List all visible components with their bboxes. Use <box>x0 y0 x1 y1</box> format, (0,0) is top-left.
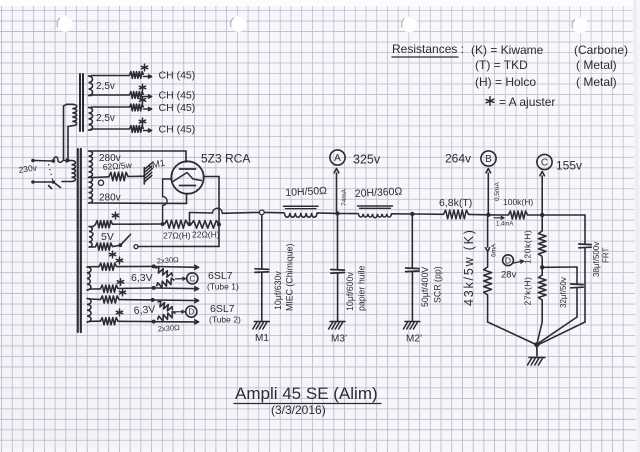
wire heater lead row 2 <box>92 94 130 96</box>
label 100k(H) <box>503 197 533 207</box>
asterisk t2 bottom <box>116 309 122 316</box>
svg-text:32μf/50v: 32μf/50v <box>559 277 568 308</box>
wire to test A <box>336 173 338 212</box>
choke L2 20H/360ohm <box>358 206 393 218</box>
arrow into primary <box>63 159 70 163</box>
wire 32uF bottom <box>576 288 578 317</box>
resistor 43k/5W (K) <box>484 267 492 295</box>
resistor 62ohm 5W <box>109 172 128 180</box>
label 22ohm(H) <box>192 230 220 240</box>
arrow test C <box>540 172 545 177</box>
junction node D <box>540 265 544 269</box>
label 2,5v #2 <box>96 113 115 124</box>
wire gnd stub <box>536 345 538 356</box>
arrow test A <box>334 169 339 174</box>
winding 6.3V #1 <box>87 267 91 290</box>
svg-text:100k(H): 100k(H) <box>503 197 533 207</box>
wire M3 cap bottom <box>337 273 339 321</box>
wire M3 cap top <box>337 216 339 269</box>
svg-text:C: C <box>541 158 548 169</box>
svg-text:120k(H): 120k(H) <box>523 230 533 264</box>
resistor 2x30 t2b <box>158 311 176 321</box>
svg-text:M1: M1 <box>255 333 269 344</box>
wire 6.3V t1 top <box>91 265 153 267</box>
wire 43k branch top <box>487 217 489 247</box>
core T1 <box>78 149 81 332</box>
label 32uf/50v <box>559 277 568 308</box>
label 10H/50ohm <box>285 185 327 199</box>
svg-text:155v: 155v <box>556 159 582 173</box>
ground M2' <box>403 322 420 330</box>
junction t1 bottom node <box>152 286 156 290</box>
resistor 2x30 t2a <box>158 301 173 311</box>
arrow heater t2 top <box>155 298 199 303</box>
svg-text:6,3V: 6,3V <box>131 272 153 284</box>
wire B+ takeoff <box>190 208 260 224</box>
node C heater circle <box>187 273 198 284</box>
arrow heater t1 bottom <box>156 286 199 291</box>
capacitor C4 32uF/50v <box>571 284 583 288</box>
label M1 top <box>150 158 167 171</box>
arrow CH row 1 <box>144 75 152 79</box>
svg-text:43k/5w (K): 43k/5w (K) <box>462 228 476 306</box>
svg-text:( Metal): ( Metal) <box>576 58 617 72</box>
svg-text:5Z3 RCA: 5Z3 RCA <box>201 152 250 166</box>
svg-text:0,5mA: 0,5mA <box>494 182 501 201</box>
terminal mains top <box>31 159 52 163</box>
wire 280v bottom to plate <box>92 194 187 204</box>
svg-text:(T) = TKD: (T) = TKD <box>475 58 528 72</box>
svg-text:B: B <box>485 154 492 165</box>
svg-text:280v: 280v <box>99 193 121 204</box>
label 120k(H) <box>523 230 533 264</box>
resistor CH adjust R1 <box>130 72 144 79</box>
svg-text:CH (45): CH (45) <box>159 90 196 102</box>
label 1,4mA <box>496 222 513 228</box>
arrow CH row 3 <box>144 107 152 111</box>
resistor 27ohm(H) <box>165 220 189 228</box>
label CH (45) row 4 <box>159 124 196 136</box>
wire rail seg3 <box>339 213 358 215</box>
svg-text:papier huile: papier huile <box>357 265 367 311</box>
ground M3' <box>329 322 346 330</box>
junction t2 top node <box>151 298 155 302</box>
svg-text:= A ajuster: = A ajuster <box>499 95 555 109</box>
svg-text:6,8k(T): 6,8k(T) <box>439 197 472 209</box>
asterisk R3 <box>139 97 145 104</box>
label 2,5v #1 <box>96 81 115 92</box>
svg-text:62Ω/5w: 62Ω/5w <box>102 160 133 172</box>
label CH (45) row 2 <box>159 90 196 102</box>
switch SW1 <box>49 180 61 188</box>
wire rail seg7 <box>490 214 509 216</box>
svg-text:2x30Ω: 2x30Ω <box>157 255 180 266</box>
svg-text:10μf/600v: 10μf/600v <box>345 272 355 311</box>
label 6SL7 tube1 <box>207 270 239 292</box>
terminal open circle CT <box>98 180 103 185</box>
label 6,3V #2 <box>133 304 155 317</box>
resistor 120k(H) <box>538 231 546 257</box>
junction node M1 cap <box>259 210 264 215</box>
svg-text:6mA: 6mA <box>491 243 498 257</box>
winding T2 secondary 2.5V #2 <box>89 108 93 131</box>
asterisk 5V top <box>112 212 118 219</box>
label 230v <box>18 162 38 175</box>
asterisk 5V bottom <box>109 251 115 258</box>
arrow heater t2 bottom <box>156 320 199 325</box>
wire 43k mid <box>487 252 489 268</box>
label 264v <box>445 152 471 166</box>
svg-text:(H) = Holco: (H) = Holco <box>475 75 536 89</box>
svg-text:CH (45): CH (45) <box>159 102 196 114</box>
wire 6.3V t2 top <box>91 298 152 301</box>
wire 27k to gnd <box>537 322 542 345</box>
asterisk R2 <box>139 84 145 91</box>
label 20H/360ohm <box>355 186 403 200</box>
wire 120k branch top <box>541 217 543 231</box>
capacitor C1 10uF/630v <box>255 269 269 273</box>
winding 6.3V #2 <box>87 299 91 323</box>
wire M2 cap top <box>411 216 413 267</box>
label 6,8k(T) <box>439 197 472 209</box>
wire 6.3V t1 bottom <box>91 288 153 289</box>
label 62ohm/5W <box>102 160 133 172</box>
svg-text:28v: 28v <box>501 270 517 281</box>
winding T1 primary <box>62 161 76 182</box>
svg-text:FRT: FRT <box>602 247 611 263</box>
legend asterisk <box>486 95 555 109</box>
junction node M2 <box>410 212 414 216</box>
asterisk t1 top <box>116 257 122 264</box>
node B circle <box>481 151 496 166</box>
legend T <box>475 58 617 72</box>
wire 32uF top <box>544 267 577 284</box>
terminal open switch <box>134 245 138 249</box>
svg-text:2,5v: 2,5v <box>96 81 115 92</box>
svg-text:C: C <box>189 274 195 283</box>
arrow test B <box>486 169 491 174</box>
svg-text:27Ω(H): 27Ω(H) <box>163 231 191 241</box>
wire switch to filament right <box>138 225 219 247</box>
asterisk t1 bottom <box>117 279 123 286</box>
label 27ohm(H) <box>163 231 191 241</box>
tube 5Z3 bottom bar <box>180 185 196 187</box>
wire M1 cap top <box>261 215 263 269</box>
svg-text:74mA: 74mA <box>341 188 348 206</box>
winding T2 secondary 2.5V #1 <box>89 76 93 96</box>
arrow CH row 4 <box>144 129 152 133</box>
wire 38uF top <box>584 215 586 244</box>
svg-text:2,5v: 2,5v <box>96 113 115 124</box>
resistor CH adjust R4 <box>130 126 144 133</box>
svg-text:CH (45): CH (45) <box>159 70 196 82</box>
arrow to D <box>174 310 185 313</box>
svg-text:27k(H): 27k(H) <box>523 276 533 305</box>
capacitor C5 38uF/500v <box>579 244 591 248</box>
junction mains top <box>52 159 56 163</box>
arrow heater t1 top <box>156 265 199 270</box>
label M3' <box>331 334 347 345</box>
tube 5Z3 plate bar <box>180 168 196 170</box>
svg-text:6SL7: 6SL7 <box>210 303 235 315</box>
junction mid node <box>188 222 192 226</box>
svg-text:M3’: M3’ <box>331 334 347 345</box>
node A circle <box>330 150 345 165</box>
wire heater lead row 4 <box>92 128 130 130</box>
switch linkage dashed <box>49 164 53 180</box>
legend H <box>475 75 617 89</box>
label 50uf/400V <box>420 267 430 307</box>
resistor CH adjust R2 <box>130 92 144 99</box>
wire to test B <box>487 173 489 213</box>
svg-text:6SL7: 6SL7 <box>208 270 233 282</box>
resistor 100k(H) <box>509 211 528 219</box>
svg-text:CH (45): CH (45) <box>159 124 196 136</box>
capacitor C3 50uF/400V <box>406 268 420 272</box>
svg-text:(Tube 1): (Tube 1) <box>207 282 239 292</box>
label papier huile <box>357 265 367 311</box>
label 155v <box>556 159 582 173</box>
svg-text:M1: M1 <box>151 158 166 171</box>
tube 5Z3 envelope <box>171 161 203 193</box>
label 325v <box>353 153 381 167</box>
arrow D to node <box>514 260 524 264</box>
resistor 22ohm(H) <box>191 221 219 229</box>
winding T1 secondary 280-0-280 <box>89 151 93 203</box>
label SCR (pp) <box>433 266 443 303</box>
junction ground node <box>534 342 539 347</box>
wire 6.3V t2 bottom <box>91 320 153 322</box>
ground main <box>528 358 546 366</box>
svg-text:325v: 325v <box>353 153 381 167</box>
asterisk t2 top <box>119 289 125 296</box>
label 2x30ohm t1 <box>157 255 180 266</box>
node C circle <box>537 154 552 169</box>
junction node B <box>486 213 490 217</box>
svg-text:10μf/630v: 10μf/630v <box>273 271 283 310</box>
svg-text:(Tube 2): (Tube 2) <box>209 315 241 325</box>
wire 38uF to gnd <box>538 322 585 345</box>
wire 38uF bottom <box>584 248 586 322</box>
svg-text:20H/360Ω: 20H/360Ω <box>355 186 403 200</box>
wire rail seg6 <box>469 213 488 215</box>
node D circle <box>503 255 514 266</box>
wire filament right <box>204 177 219 223</box>
svg-text:2x30Ω: 2x30Ω <box>158 323 181 334</box>
svg-text:1,4mA: 1,4mA <box>496 222 513 228</box>
label 10uf/600v <box>345 272 355 311</box>
label 27k(H) <box>523 276 533 305</box>
ground M1 <box>253 322 269 330</box>
wire center tap <box>92 176 109 179</box>
svg-text:M2’: M2’ <box>406 334 422 345</box>
svg-text:(3/3/2016): (3/3/2016) <box>271 403 326 417</box>
wire rail seg2 <box>317 212 337 215</box>
wire 5V bottom <box>93 246 96 248</box>
svg-text:Ampli 45 SE (Alim): Ampli 45 SE (Alim) <box>235 384 378 403</box>
label 43k/5W (K) <box>462 228 476 306</box>
wire to test C <box>541 176 543 213</box>
arrow 6mA down <box>485 247 490 251</box>
arrow rail current <box>494 216 504 219</box>
label 6SL7 tube2 <box>209 303 241 325</box>
wire 120k bottom <box>541 257 543 266</box>
svg-text:(Carbone): (Carbone) <box>574 43 628 57</box>
label 280v top <box>99 153 121 164</box>
label 6,3V #1 <box>131 272 153 284</box>
arrow to C <box>176 277 186 280</box>
label 6mA <box>491 243 498 257</box>
tube 5Z3 filament <box>173 173 202 182</box>
label 5Z3 RCA <box>201 152 250 166</box>
title Ampli 45 SE (Alim) <box>234 384 381 404</box>
junction filament-left node <box>161 222 165 226</box>
wire 32uF to gnd <box>538 317 578 344</box>
label 5V <box>101 231 114 243</box>
resistor 6.3V t2 top <box>101 296 120 303</box>
wire 280v top to plate <box>92 151 186 162</box>
wire M2 cap bottom <box>411 272 413 321</box>
svg-text:A: A <box>334 153 341 164</box>
legend K <box>471 43 628 57</box>
label 28v <box>501 270 517 281</box>
wire 27k top stub <box>541 269 543 276</box>
wire rail seg1 <box>264 211 284 213</box>
wire rail seg8 <box>528 214 542 216</box>
svg-text:D: D <box>505 255 511 265</box>
resistor 6.8k(T) <box>444 210 469 219</box>
choke L1 10H/50ohm <box>284 206 319 217</box>
label FRT <box>602 247 611 263</box>
svg-text:( Metal): ( Metal) <box>576 75 617 89</box>
label CH (45) row 3 <box>159 102 196 114</box>
winding T2 primary <box>67 104 77 126</box>
svg-text:Resistances :: Resistances : <box>392 42 464 56</box>
svg-text:MIEC (Chimique): MIEC (Chimique) <box>285 243 295 311</box>
svg-text:D: D <box>188 308 194 317</box>
label Resistances <box>392 42 464 57</box>
junction right node <box>217 223 221 227</box>
wire heater lead row 3 <box>92 106 130 108</box>
resistor 2x30 t1a <box>156 267 173 278</box>
resistor 2x30 t1b <box>157 278 175 287</box>
wire rail seg5 <box>414 213 444 215</box>
label M2' <box>406 334 422 345</box>
svg-text:6,3V: 6,3V <box>133 304 155 317</box>
wire filament left <box>163 179 172 222</box>
label 280v bottom <box>99 193 121 204</box>
label 2x30ohm t2 <box>158 323 181 334</box>
svg-text:50μf/400V: 50μf/400V <box>420 267 430 307</box>
svg-text:22Ω(H): 22Ω(H) <box>192 230 220 240</box>
svg-text:10H/50Ω: 10H/50Ω <box>285 185 327 199</box>
svg-text:(K) = Kiwame: (K) = Kiwame <box>471 43 544 57</box>
svg-text:38μf/500v: 38μf/500v <box>592 242 601 277</box>
title date <box>271 403 326 417</box>
junction node A/M3 <box>335 211 339 215</box>
label 10uf/630v <box>273 271 283 310</box>
label 0,5mA <box>494 182 501 201</box>
junction node C <box>540 213 544 217</box>
asterisk R1 <box>141 64 147 71</box>
label 38uf/500v <box>592 242 601 277</box>
wire rail seg4 <box>392 213 412 215</box>
resistor 6.3V t2 bottom <box>101 318 119 325</box>
resistor CH adjust R3 <box>130 104 144 111</box>
wire 5V top <box>93 224 161 227</box>
winding 5V <box>89 227 93 248</box>
switch filament <box>113 235 131 248</box>
label 74mA <box>341 188 348 206</box>
wire M1 cap bottom <box>261 272 263 321</box>
wire rail seg9 <box>544 214 585 216</box>
wire 27k bottom <box>541 300 543 322</box>
resistor 5V top adjust <box>96 221 113 228</box>
resistor 6.3V t1 bottom <box>101 285 119 292</box>
wire heater lead row 1 <box>92 75 130 77</box>
wire heater primary feed loop <box>64 104 69 159</box>
svg-text:264v: 264v <box>445 152 471 166</box>
label CH (45) row 1 <box>159 70 196 82</box>
junction t2 bottom node <box>152 320 156 324</box>
terminal mains bottom <box>31 180 53 184</box>
svg-text:5V: 5V <box>101 231 114 243</box>
wire CT to M1 <box>128 175 144 177</box>
junction t1 top node <box>152 264 156 268</box>
label M1 <box>255 333 269 344</box>
label MIEC (Chimique) <box>285 243 295 311</box>
resistor 6.3V t1 top <box>99 263 117 270</box>
asterisk R4 <box>139 118 145 125</box>
resistor 27k(H) <box>538 275 546 300</box>
svg-text:SCR (pp): SCR (pp) <box>433 266 443 303</box>
resistor 5V bottom adjust <box>96 243 113 250</box>
arrow CH row 2 <box>144 95 152 99</box>
chassis M1 pad <box>144 163 152 184</box>
wire 43k bottom <box>487 295 489 322</box>
wire mains squiggle <box>53 157 62 163</box>
node D heater circle <box>186 306 197 317</box>
capacitor C2 10uF/600v <box>331 270 345 274</box>
core T2 <box>80 74 83 131</box>
wire 43k to gnd <box>488 322 536 345</box>
